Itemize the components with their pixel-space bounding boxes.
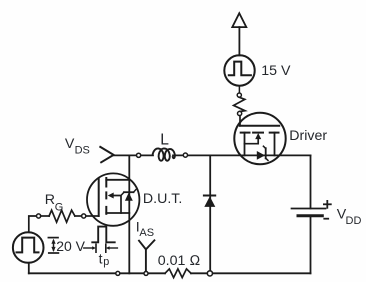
wire inductor to driver and right rail	[173, 154, 311, 156]
driver source stub	[244, 133, 246, 156]
terminal node B	[238, 111, 242, 115]
svg-text:R: R	[45, 192, 55, 208]
svg-text:20 V: 20 V	[56, 238, 85, 254]
wire main node to inductor	[114, 154, 153, 156]
resistor RG	[49, 210, 75, 222]
DUT drain-source rail	[128, 155, 130, 273]
driver gate lead	[239, 116, 241, 126]
svg-text:L: L	[160, 131, 169, 148]
svg-text:15 V: 15 V	[261, 63, 291, 79]
amplitude measure arrow 20V	[48, 237, 58, 239]
node inductor left	[137, 153, 141, 157]
diode D1	[204, 195, 215, 197]
tp measure arrow right	[105, 244, 107, 252]
DUT body elbow wire	[114, 196, 122, 214]
right rail wire lower	[310, 216, 312, 274]
op-circle Driver MOSFET	[234, 113, 285, 164]
gate pulse waveform tp	[92, 227, 114, 243]
battery VDD plates	[292, 208, 326, 210]
bottom rail wire left	[29, 272, 165, 274]
driver channel segment 1	[241, 132, 250, 134]
DUT channel segment 3	[105, 207, 107, 214]
wire 20V source to bottom rail	[28, 263, 30, 274]
tp measure arrow left	[84, 247, 93, 249]
node inductor right	[183, 153, 187, 157]
svg-text:DS: DS	[75, 144, 90, 156]
node diode bottom junction	[207, 271, 212, 276]
driver body zener diode	[257, 151, 265, 160]
DUT body zener diode	[125, 193, 133, 201]
transistor DUT circle	[87, 173, 139, 225]
DUT drain stub	[106, 179, 129, 181]
probe IAS Y symbol	[139, 240, 154, 249]
svg-text:D.U.T.: D.U.T.	[143, 191, 182, 207]
freewheel diode branch wire	[209, 156, 211, 271]
pulse source 20V circle	[13, 232, 44, 263]
wire node to RG	[41, 215, 49, 217]
svg-text:DD: DD	[346, 215, 362, 227]
wire gate terminal to gate bar	[86, 215, 99, 217]
svg-text:p: p	[103, 256, 109, 268]
DUT gate bar	[98, 179, 100, 217]
terminal node A	[237, 93, 241, 97]
node IAS probe	[144, 271, 148, 275]
svg-text:V: V	[65, 136, 75, 152]
svg-text:Driver: Driver	[289, 128, 327, 144]
driver drain stub	[274, 133, 276, 156]
DUT channel segment 2	[105, 192, 107, 198]
pulse glyph 20V	[17, 238, 39, 253]
DUT body arrow	[108, 193, 114, 199]
svg-text:AS: AS	[139, 227, 154, 239]
DUT gate terminal node	[82, 214, 86, 218]
wire RG to gate node	[75, 215, 82, 217]
driver gate bar	[240, 125, 279, 127]
svg-text:t: t	[99, 251, 103, 267]
wire arrow to 15V source	[238, 27, 240, 55]
resistor (driver gate)	[234, 97, 245, 111]
probe VDS arrowhead	[100, 147, 113, 162]
battery minus sign	[324, 218, 328, 220]
pulse source 15V circle	[224, 55, 254, 85]
inductor L coil	[153, 148, 175, 160]
supply arrow (open triangle)	[232, 13, 246, 27]
wire 20V source to RG	[29, 216, 37, 232]
driver channel segment 3	[270, 132, 279, 134]
DUT source stub	[106, 212, 129, 214]
DUT channel segment 1	[105, 178, 107, 187]
right rail wire upper	[310, 155, 312, 208]
wire 15V source to terminal	[238, 86, 240, 94]
node bottom left	[116, 271, 120, 275]
driver channel segment 2	[253, 132, 263, 134]
driver body arrow	[255, 133, 261, 139]
svg-text:G: G	[55, 202, 64, 214]
bottom rail wire right	[191, 272, 311, 274]
pulse glyph 15V	[229, 62, 251, 76]
resistor 0.01 ohm	[165, 269, 191, 278]
driver body elbow wire	[245, 139, 259, 144]
battery plus sign	[324, 203, 331, 205]
svg-text:0.01 Ω: 0.01 Ω	[158, 253, 201, 269]
node RG left	[37, 214, 41, 218]
